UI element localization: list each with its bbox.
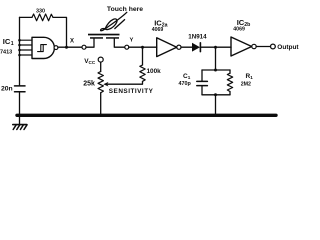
touch contact right bar — [106, 37, 119, 39]
junction dot: tank to ground bus — [214, 114, 217, 117]
svg-text:X: X — [70, 39, 74, 45]
junction dots on input bus — [18, 39, 21, 56]
ground bus (thick) — [17, 114, 276, 117]
node X terminal circle — [82, 45, 86, 49]
svg-text:1N914: 1N914 — [188, 34, 207, 41]
Vcc terminal circle — [98, 57, 103, 62]
svg-text:470p: 470p — [179, 81, 192, 87]
icon: pointing hand/finger — [101, 12, 127, 30]
wire: tank bottom to ground bus — [215, 95, 217, 116]
junction dot: tank bottom — [214, 93, 217, 96]
resistor R 330 (feedback) — [32, 14, 53, 21]
svg-text:R1: R1 — [246, 73, 254, 80]
touch plate upper bar — [88, 34, 120, 36]
junction dot: tank top — [214, 69, 217, 72]
capacitor C 20n plates on left bus — [15, 86, 26, 92]
svg-text:25k: 25k — [83, 80, 95, 87]
svg-text:7413: 7413 — [0, 49, 12, 55]
wire: top feedback loop horizontal left segment — [20, 16, 33, 18]
svg-text:Output: Output — [277, 44, 299, 51]
svg-text:4069: 4069 — [152, 27, 164, 33]
resistor R 100k — [140, 65, 145, 81]
wire: branch down to 100k — [142, 47, 144, 65]
svg-text:SENSITIVITY: SENSITIVITY — [109, 88, 154, 95]
wire: tank top rail — [202, 69, 230, 71]
wire: NAND output to node X — [58, 46, 82, 48]
op-amp U2a: inverter IC2a 4069 triangle — [157, 38, 177, 57]
diode D1 1N914 — [192, 43, 200, 52]
IC2a output bubble — [177, 45, 181, 49]
junction dot: 100k branch on Y wire — [141, 46, 144, 49]
NAND output bubble — [54, 46, 58, 50]
svg-text:100k: 100k — [147, 68, 162, 75]
wire: R1 bottom vertical — [229, 92, 231, 95]
resistor R1 2M2 — [227, 73, 232, 91]
svg-text:2M2: 2M2 — [241, 81, 251, 87]
ground symbol (earth, bottom left) — [19, 117, 21, 124]
wire: diode cathode to IC2b input — [201, 46, 231, 48]
op-amp U1: NAND gate IC1 7413 body — [32, 37, 54, 58]
node Y terminal circle — [125, 45, 129, 49]
svg-text:Y: Y — [130, 37, 134, 43]
junction dot: left bus to ground — [18, 114, 21, 117]
svg-text:Touch here: Touch here — [107, 6, 143, 13]
wire: pot bottom to ground bus — [100, 93, 102, 116]
wire: Vcc down to pot — [100, 62, 102, 71]
NAND input stubs (4 inputs tied to bus) — [20, 40, 33, 55]
touch contact left bar — [90, 37, 103, 39]
IC2b output bubble — [252, 44, 256, 48]
node: Output terminal circle — [271, 44, 276, 49]
wire: R1 branch top vertical — [229, 70, 231, 73]
wire: top feedback loop right segment and drop to output node — [53, 17, 67, 46]
svg-text:4069: 4069 — [233, 26, 245, 32]
wiper arrowhead into pot — [103, 82, 108, 87]
junction dot: feedback to NAND output wire — [65, 46, 68, 49]
schmitt trigger hysteresis symbol inside gate — [38, 45, 47, 52]
wire: tank bottom rail — [202, 94, 230, 96]
svg-text:20n: 20n — [1, 85, 13, 92]
svg-text:C1: C1 — [183, 73, 191, 80]
wire: branch down to tank top rail — [215, 47, 217, 70]
op-amp U2b: inverter IC2b 4069 triangle — [231, 37, 252, 56]
svg-text:VCC: VCC — [84, 58, 96, 65]
wire: Y to IC2a input — [129, 46, 157, 48]
capacitor C1 plates — [197, 81, 208, 85]
wire: IC2b output to output terminal — [256, 46, 270, 48]
junction dot: tank branch — [214, 46, 217, 49]
wire: 100k bottom to pot wiper arrow — [107, 81, 143, 84]
wire: left input bus vertical (top loop left side down to ground) — [19, 17, 21, 115]
wire: X to left touch contact — [86, 39, 94, 48]
wire: C1 branch verticals — [201, 70, 203, 95]
wire: right touch contact down to node Y — [114, 39, 125, 48]
potentiometer R 25k SENSITIVITY — [98, 72, 103, 93]
junction dot: pot to ground bus — [99, 114, 102, 117]
wire: IC2a output to diode anode — [181, 46, 192, 48]
svg-text:330: 330 — [36, 8, 45, 14]
